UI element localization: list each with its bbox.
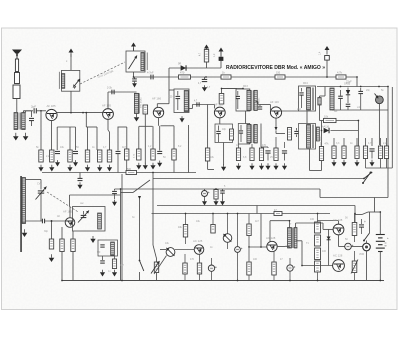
right row element x334: [333, 138, 335, 146]
TR1 primary top feed: [289, 221, 291, 228]
T6 bias resistor R16: [72, 231, 74, 239]
T8 emitter resistor R24: [272, 262, 276, 275]
right row element x344: [343, 138, 345, 146]
box1 core line outside: [58, 72, 60, 89]
TR1 secondary to T10 base: [296, 240, 302, 242]
svg-text:AC 125: AC 125: [193, 239, 203, 243]
IF transformer MF4 box: [299, 86, 316, 111]
below MF6 resistor R14: [112, 259, 116, 269]
T2 collector up lead: [107, 92, 109, 109]
MF3 lower box: [238, 124, 249, 145]
svg-text:MF4: MF4: [303, 82, 308, 85]
MF1 ground: [134, 114, 140, 122]
transistor T10 AC128 output lower: [333, 260, 345, 272]
wire T6 collector top: [69, 207, 71, 218]
diode D3 AA116: [321, 121, 323, 131]
bias row item R x138.8: [138, 126, 140, 149]
right edge vertical from detector: [387, 87, 389, 198]
capacitor C5 on IF line: [112, 90, 114, 95]
MF4 lower box: [299, 124, 316, 150]
resistor R29 output: [354, 214, 356, 223]
supply arrow and fuse x221: [219, 48, 224, 57]
T4 base feed with series cap: [189, 108, 192, 110]
box1 top feed wire: [70, 54, 72, 70]
T4 emitter lead: [219, 118, 221, 124]
mid row element x268: [267, 147, 269, 148]
AGC line y189: [115, 188, 321, 190]
T6 collector line y195: [70, 194, 121, 196]
TR1 secondary winding: [294, 228, 297, 249]
svg-text:500: 500: [127, 168, 132, 171]
T5 collector to MF4: [282, 110, 299, 112]
MF3 secondary winding: [254, 90, 257, 110]
diode D1 on rail: [181, 65, 186, 70]
ferrite rod winding: [22, 178, 25, 224]
electrolytic C19 output: [345, 243, 354, 250]
MF3 lower secondary leads: [260, 124, 262, 148]
box2 core line outside: [146, 53, 148, 71]
svg-text:9R: 9R: [178, 63, 181, 66]
transistor T8 AC128 driver: [267, 241, 277, 251]
battery B1 9V: [376, 235, 385, 252]
mid row element x252: [251, 144, 253, 148]
wire P2 to T7 base: [175, 249, 194, 251]
T5 base wire left: [258, 104, 270, 106]
ground below L1 secondary: [23, 133, 29, 141]
on-off linkage vertical x139.5: [139, 199, 141, 261]
wire MF3 primary to lower box: [245, 111, 247, 124]
svg-text:AC 128: AC 128: [333, 218, 343, 222]
antenna A1 telescopic whip: [12, 50, 22, 113]
svg-text:AC 128: AC 128: [333, 254, 343, 258]
svg-text:+: +: [364, 220, 366, 224]
svg-text:OA95: OA95: [344, 83, 351, 86]
MF6 capacitor: [100, 245, 104, 247]
resistor R19 above T7 collector: [212, 214, 214, 225]
rail resistor R4b: [275, 75, 285, 79]
svg-text:MF: MF: [97, 251, 101, 254]
capacitor C9b in MF4: [301, 88, 303, 92]
AGC filter capacitor: [114, 189, 116, 191]
secondary rail y68: [169, 67, 221, 69]
T5 base coupling cap: [259, 105, 261, 107]
wire input node to C2: [23, 110, 33, 112]
ferrite winding ground: [22, 229, 28, 237]
node at x83: [82, 112, 84, 114]
vertical x188.5 to bus: [188, 125, 190, 173]
svg-text:9 V: 9 V: [384, 242, 388, 247]
resistor R23 below: [247, 262, 251, 275]
svg-text:CV: CV: [37, 183, 41, 186]
IF transformer MF3 box: [236, 89, 250, 111]
capacitor C3 series on rail: [151, 75, 153, 80]
volume potentiometer P2: [166, 248, 175, 257]
detector top rail y86.5: [317, 86, 388, 88]
svg-text:AF: AF: [57, 215, 61, 218]
antenna coupling transformer L1 primary: [14, 113, 18, 130]
transistor T4 AF116 IF2: [214, 107, 225, 118]
ferrite rod antenna: [20, 176, 22, 252]
svg-text:AF 185: AF 185: [47, 104, 56, 108]
bias row item C x159.7: [159, 126, 161, 151]
right row element x386.5: [386, 138, 388, 146]
transistor T5 AF116 IF3: [270, 107, 281, 118]
box2 coil winding: [141, 53, 144, 71]
bias resistor row item R x41: [39, 150, 43, 162]
capacitor C7 in MF3: [237, 91, 239, 96]
rail y197.5 right: [320, 197, 388, 199]
svg-text:2k2: 2k2: [297, 108, 302, 111]
svg-text:100: 100: [322, 250, 327, 253]
svg-text:MF3: MF3: [243, 85, 248, 88]
resistor R13 on rail: [274, 212, 282, 216]
oscillator tuning box MF2: [126, 51, 145, 72]
oscillator transformer box MF6: [98, 240, 118, 256]
svg-text:470: 470: [190, 258, 195, 261]
svg-text:4-7nF: 4-7nF: [147, 72, 154, 75]
bottom ground bus: [62, 280, 384, 282]
supply resistor x206.5: [204, 45, 209, 54]
below MF6 capacitor C15: [102, 256, 104, 260]
MF3 lower secondary: [254, 124, 257, 143]
svg-text:100: 100: [310, 218, 315, 221]
svg-text:4k7: 4k7: [120, 264, 125, 267]
svg-text:470: 470: [262, 144, 267, 147]
svg-text:2-2k: 2-2k: [107, 87, 113, 90]
wire CV1 down to base line: [40, 200, 42, 221]
svg-text:100: 100: [253, 258, 258, 261]
svg-text:2pF: 2pF: [31, 105, 36, 109]
dropper x86.3 from signal wire: [85, 113, 87, 127]
bias bus bar y172.5: [42, 172, 196, 174]
long vertical x392.3: [391, 87, 393, 168]
vertical x207.6 dropper: [207, 105, 209, 149]
volume potentiometer P1: [376, 96, 384, 104]
wire pot wiper: [152, 179, 154, 246]
right row element x357: [356, 138, 358, 146]
wire T5 base from MF3: [256, 101, 259, 103]
capacitor under diode: [346, 104, 351, 106]
bias row item R x87.5: [85, 150, 89, 162]
staple x139-152.5: [139, 125, 153, 127]
junction dots: [133, 76, 135, 78]
bias row item R x70: [68, 150, 72, 162]
svg-text:AA116: AA116: [322, 126, 330, 129]
vertical x355 to output: [354, 206, 356, 223]
rail stub to T9 top: [318, 220, 339, 222]
supply arrow above box2: [131, 43, 136, 52]
mid row element x238.5: [238, 144, 240, 148]
MF3 lower core lines: [252, 124, 253, 143]
electrolytic C16: [211, 258, 213, 265]
element C12 under AGC line: [222, 189, 224, 191]
svg-text:MF3 452kc: MF3 452kc: [321, 136, 323, 146]
svg-text:AF 116: AF 116: [270, 100, 279, 104]
svg-text:20n: 20n: [366, 89, 371, 92]
box2 top feed wire: [133, 48, 135, 51]
switch S1b: [363, 233, 370, 242]
wire MF4 bottom corner: [309, 149, 311, 171]
svg-text:30p: 30p: [44, 230, 49, 233]
T9 collector wire: [338, 235, 340, 247]
svg-text:vol: vol: [357, 106, 361, 109]
transistor T9 AC128 output upper: [333, 224, 344, 235]
cap and arrow below rail at box2 lead: [134, 77, 136, 79]
decoupling cap and arrow x204.5: [204, 77, 206, 79]
MF4 lower core lines: [312, 125, 313, 149]
wire between MF4 boxes: [306, 111, 308, 124]
electrolytic C20 vertical: [361, 219, 363, 224]
MF3 core lines: [252, 90, 253, 110]
line y192.5 right of x120.5: [121, 192, 134, 194]
MF3 lower winding: [247, 124, 251, 143]
resistor R22: [248, 214, 250, 225]
svg-text:VDR: VDR: [359, 253, 364, 256]
box2 bottom lead: [133, 72, 135, 77]
tuning gang dashed link bottom: [47, 192, 79, 213]
MF6 coil winding: [111, 242, 115, 256]
wire C2 to T1 base: [37, 110, 46, 112]
emitter staple T1: [57, 126, 75, 128]
capacitor C8b in lower box: [240, 125, 242, 130]
tuning gang dashed link top: [80, 62, 125, 84]
thermistor TH1: [352, 261, 357, 273]
detector bottom wire y110: [332, 109, 388, 111]
right row element x372: [371, 138, 373, 146]
transistor T3 AF166 IF1: [153, 107, 163, 117]
transformer L1 core: [19, 113, 20, 130]
MF4 core lines: [312, 88, 313, 111]
detector coil: [330, 88, 334, 110]
T6 base resistor R17: [51, 221, 53, 239]
bias row item R x153: [152, 126, 154, 149]
mid row element x284.5: [284, 142, 286, 148]
bias row item R x99.7: [98, 150, 102, 162]
IF line y92: [108, 91, 137, 93]
T5 emitter resistor: [288, 128, 292, 141]
capacitor C1 input shunt: [31, 111, 33, 117]
bias row item R x126.7: [126, 127, 128, 149]
bus drop with capacitor C11: [79, 173, 81, 179]
MF3 primary winding: [247, 90, 251, 110]
IF transformer MF2 box: [174, 89, 189, 113]
battery bottom wire: [379, 252, 381, 281]
box2 tuning arrow: [129, 56, 138, 70]
transistor T7 AC125 AF driver: [194, 245, 204, 255]
main top rail y77: [134, 76, 358, 78]
base bias vertical x328.6: [328, 229, 330, 265]
T4 top wire: [221, 89, 223, 94]
capacitor C2 series coupling: [34, 108, 36, 113]
switch S1a lever: [363, 172, 372, 180]
MF3 top feed: [222, 88, 244, 90]
output node wire: [351, 246, 363, 248]
svg-text:AF 185: AF 185: [63, 210, 72, 214]
P2 rheostat body below: [153, 245, 157, 259]
fuse box on bus: [126, 171, 137, 175]
wire under right row: [366, 167, 393, 169]
svg-text:RADIORICEVITORE DBR Mod. « AMI: RADIORICEVITORE DBR Mod. « AMIGO »: [226, 65, 325, 71]
loudspeaker LS: [363, 243, 371, 251]
stacked resistor R28: [315, 261, 321, 272]
capacitor C9 det: [340, 90, 342, 96]
svg-text:+: +: [387, 236, 389, 240]
vertical x374.5: [374, 198, 376, 213]
variable capacitor CV1: [40, 180, 42, 190]
diode D4 bias: [327, 237, 331, 240]
MF1 core line: [138, 93, 140, 113]
TR1 primary winding: [288, 228, 292, 249]
MF4 primary winding: [307, 88, 311, 111]
T5 emitter network cap: [296, 128, 298, 131]
T3 emitter stub: [158, 117, 160, 126]
svg-text:MF1 452kc: MF1 452kc: [140, 96, 142, 108]
MF4 lower secondary: [316, 127, 319, 141]
long vertical x120.5: [120, 189, 122, 281]
emitter staple T2: [86, 126, 97, 128]
vertical x358.4 to row: [357, 121, 359, 147]
svg-text:150: 150: [276, 72, 281, 75]
R7 leg and mid arrow: [144, 114, 146, 164]
supply arrow above box1: [69, 49, 74, 58]
svg-text:4k7: 4k7: [122, 146, 127, 149]
T5 emitter down: [275, 118, 277, 127]
node under oscillator box1: [70, 112, 72, 114]
T1 emitter dropper: [51, 121, 53, 150]
transistor T2 AF185 mixer: [103, 109, 114, 120]
capacitor C6 in MF2: [177, 91, 179, 96]
staple x117-127: [118, 126, 127, 128]
MF2 ground: [180, 116, 185, 122]
TR1 core lines: [292, 228, 293, 249]
audio rail y213.5: [152, 213, 331, 215]
T2 emitter dropper: [107, 119, 109, 130]
long vertical x122 to bus: [121, 174, 123, 281]
resistor R7b below: [205, 148, 209, 161]
right row element x380.5: [380, 138, 382, 146]
tone potentiometer P3: [227, 214, 229, 234]
mid row element x261.5: [261, 147, 263, 148]
speaker vertical rails: [366, 251, 368, 281]
bias row item C x57.5: [55, 151, 60, 153]
capacitor C8 in box: [218, 126, 220, 131]
bias row item C x75.5: [73, 151, 78, 153]
svg-text:470: 470: [230, 135, 235, 138]
T7 below resistors R20 R21: [184, 254, 186, 263]
stacked resistor R27: [315, 248, 321, 260]
resistor R9 on box edge: [230, 129, 234, 140]
switch S2b lever: [139, 260, 144, 271]
bias row item R x174: [173, 126, 175, 149]
TR1 secondary to T9 base: [295, 223, 297, 228]
svg-text:18p: 18p: [222, 128, 227, 131]
right row element x365.5: [365, 138, 367, 146]
svg-text:4k7: 4k7: [255, 220, 260, 223]
svg-text:AF 185: AF 185: [102, 104, 111, 108]
ferrite winding top stub: [26, 179, 42, 181]
ferrite winding bottom stub: [26, 220, 43, 222]
element R12 under AGC line: [214, 190, 218, 200]
rail resistor R3 470ohm: [179, 75, 191, 79]
svg-text:470: 470: [180, 71, 185, 75]
resistor R10 horizontal: [324, 118, 337, 122]
capacitor C10 det: [360, 88, 362, 91]
switch S1a: [362, 172, 372, 185]
ground below L1 primary: [13, 133, 19, 141]
bias row item R x51.8: [50, 150, 54, 162]
supply arrow x327 with fuse: [325, 46, 330, 55]
vertical x261 rail to base: [260, 214, 262, 248]
transformer L1 secondary: [22, 113, 26, 130]
rail resistor R5 4.7k: [336, 75, 346, 79]
transistor T6 AF185 converter: [65, 218, 75, 228]
resistor R7 beside T3: [143, 105, 148, 114]
svg-text:MF2 452kc: MF2 452kc: [259, 98, 261, 108]
base wire to T6: [45, 220, 65, 222]
T8 collector to TR1 primary bottom: [277, 246, 289, 248]
T6 emitter resistor R15: [61, 227, 63, 239]
rail corner down at x357: [356, 77, 358, 87]
transistor T1 AF185 RF amp: [46, 109, 57, 120]
electrolytic C17 small: [235, 247, 243, 253]
box1 tuning arrow: [74, 85, 76, 88]
MF4 lower winding: [307, 125, 311, 149]
oscillator box MF5: [73, 207, 106, 232]
bias row item C x118: [117, 127, 119, 151]
wire T1 collector line to mixer: [57, 112, 103, 114]
RF tuning box MF1: [62, 70, 80, 91]
resistor R8 above T4: [219, 94, 224, 105]
wire box1 down to signal line: [70, 91, 72, 113]
battery top wire: [379, 212, 381, 235]
tuned box below T4: [215, 124, 233, 143]
vertical below T4 box x223.6: [223, 143, 225, 166]
stacked resistor R26: [315, 235, 321, 246]
svg-text:AC 128: AC 128: [266, 236, 276, 240]
wire L1 secondary to input node: [23, 111, 31, 113]
MF5 variable capacitor arrow: [83, 211, 85, 215]
wire pot down: [378, 104, 380, 145]
stacked resistor R25: [315, 222, 321, 233]
MF4 secondary short coil: [318, 98, 321, 106]
capacitor C14 on T6 base: [42, 219, 44, 224]
IF transformer MF1 winding: [134, 93, 138, 113]
MF2 winding: [184, 91, 188, 112]
MF4 secondary leads: [319, 96, 321, 98]
diode D2 detector vertical: [346, 88, 350, 104]
T3 collector path up right: [156, 104, 158, 108]
MF5 coil winding: [98, 213, 102, 229]
svg-text:det: det: [334, 110, 338, 113]
box1 coil winding: [62, 74, 65, 89]
staple x160.5-174: [161, 125, 175, 127]
resistor R18 above T7: [185, 214, 187, 225]
svg-text:AF 166: AF 166: [152, 97, 161, 101]
MF5 ground: [90, 236, 95, 243]
bias row item R x109.5: [109, 132, 111, 150]
feed line y178.5: [152, 173, 154, 179]
dropper x41 from signal wire: [40, 111, 42, 150]
svg-text:4.7k: 4.7k: [337, 71, 343, 75]
element C13 electrolytic under AGC line: [204, 189, 206, 191]
vertical x257: [256, 206, 258, 214]
rail resistor R4: [221, 75, 231, 79]
electrolytic C18: [287, 265, 295, 271]
audio rail y205.5: [157, 205, 355, 207]
svg-text:AF 116: AF 116: [214, 103, 223, 107]
mid row element x276: [275, 137, 277, 148]
AGC corner down x320: [319, 189, 321, 198]
